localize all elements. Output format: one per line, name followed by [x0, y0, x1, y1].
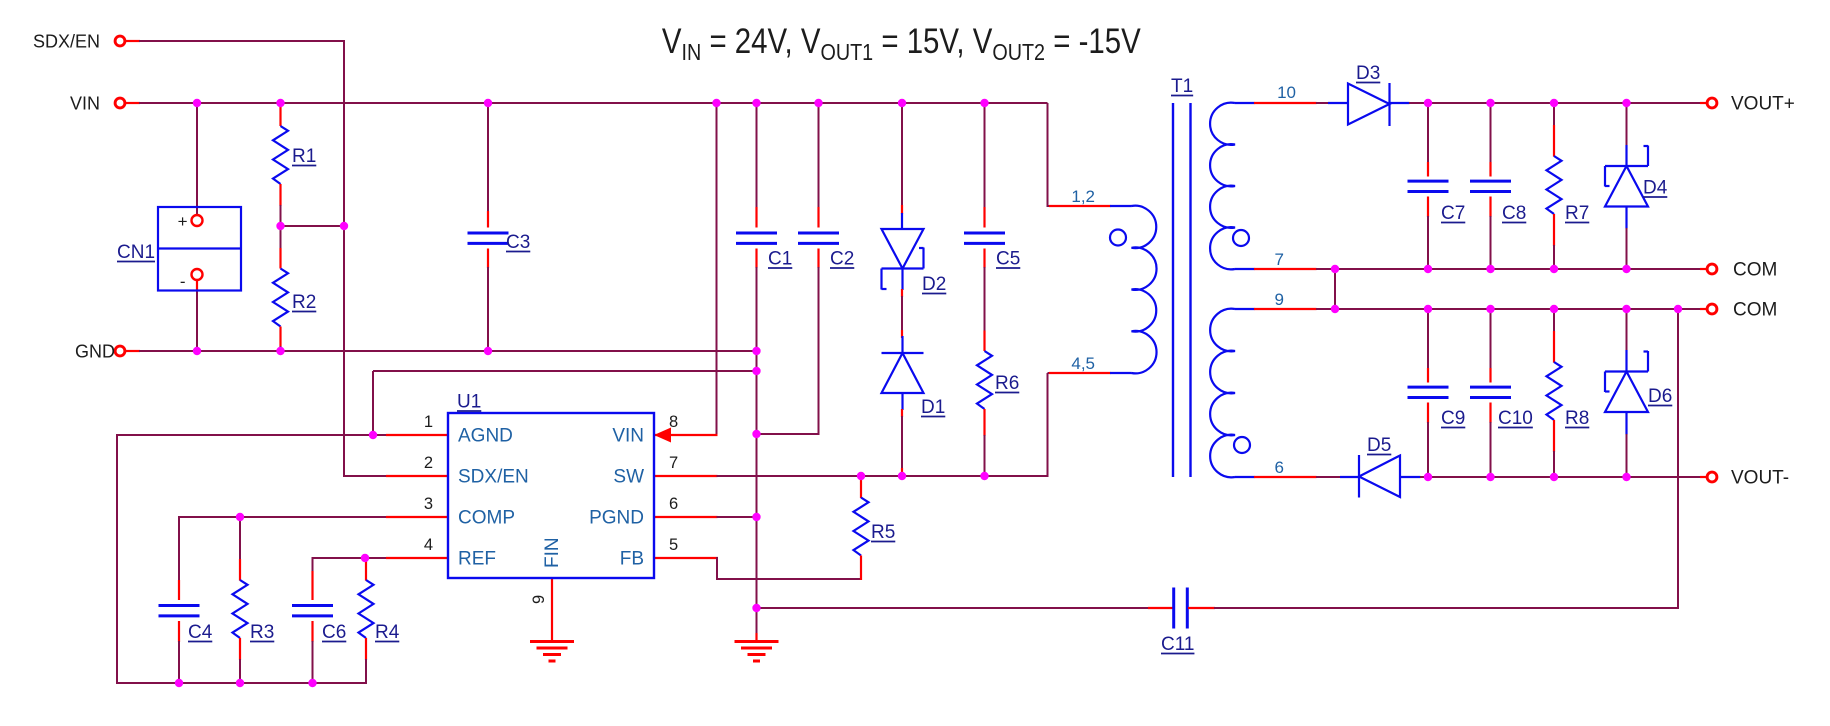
svg-text:R2: R2 — [292, 292, 316, 313]
svg-text:2: 2 — [424, 454, 433, 472]
svg-text:SDX/EN: SDX/EN — [33, 32, 100, 52]
svg-text:C5: C5 — [996, 249, 1020, 270]
svg-text:C11: C11 — [1161, 634, 1194, 655]
svg-text:C1: C1 — [768, 249, 792, 270]
svg-text:C7: C7 — [1441, 203, 1465, 224]
svg-text:1: 1 — [424, 413, 433, 431]
svg-text:+: + — [178, 212, 188, 231]
svg-text:6: 6 — [1275, 458, 1284, 477]
svg-text:8: 8 — [669, 413, 678, 431]
svg-text:C10: C10 — [1498, 408, 1533, 429]
svg-text:CN1: CN1 — [117, 242, 155, 263]
svg-text:SW: SW — [613, 467, 644, 488]
svg-text:PGND: PGND — [589, 508, 644, 529]
svg-text:D3: D3 — [1356, 63, 1380, 84]
svg-text:R3: R3 — [250, 622, 274, 643]
svg-text:7: 7 — [1275, 250, 1284, 269]
svg-text:4: 4 — [424, 536, 433, 554]
svg-text:VOUT-: VOUT- — [1731, 468, 1789, 489]
svg-text:VIN: VIN — [70, 94, 100, 114]
svg-text:GND: GND — [75, 342, 115, 362]
svg-text:R6: R6 — [995, 373, 1019, 394]
svg-text:U1: U1 — [457, 392, 481, 413]
svg-text:FIN: FIN — [542, 537, 563, 568]
svg-text:7: 7 — [669, 454, 678, 472]
svg-text:R8: R8 — [1565, 408, 1589, 429]
svg-text:R4: R4 — [375, 622, 400, 643]
svg-text:9: 9 — [530, 595, 548, 604]
svg-text:C6: C6 — [322, 622, 346, 643]
svg-text:5: 5 — [669, 536, 678, 554]
svg-text:C2: C2 — [830, 249, 854, 270]
svg-text:C3: C3 — [506, 232, 530, 253]
svg-text:T1: T1 — [1171, 76, 1193, 97]
svg-text:VIN = 24V, VOUT1 = 15V, VOUT2: VIN = 24V, VOUT1 = 15V, VOUT2 = -15V — [662, 22, 1141, 66]
svg-text:6: 6 — [669, 495, 678, 513]
svg-text:COM: COM — [1733, 300, 1777, 321]
svg-text:10: 10 — [1277, 83, 1296, 102]
svg-text:C8: C8 — [1502, 203, 1526, 224]
svg-text:D1: D1 — [921, 397, 945, 418]
svg-text:C4: C4 — [188, 622, 213, 643]
svg-text:R1: R1 — [292, 146, 316, 167]
svg-text:SDX/EN: SDX/EN — [458, 467, 529, 488]
svg-text:D6: D6 — [1648, 386, 1672, 407]
svg-text:D5: D5 — [1367, 435, 1391, 456]
svg-text:1,2: 1,2 — [1071, 187, 1095, 206]
svg-text:-: - — [180, 272, 186, 291]
svg-text:C9: C9 — [1441, 408, 1465, 429]
svg-text:AGND: AGND — [458, 426, 513, 447]
svg-text:COMP: COMP — [458, 508, 515, 529]
svg-text:FB: FB — [620, 549, 644, 570]
svg-text:9: 9 — [1275, 290, 1284, 309]
svg-text:VOUT+: VOUT+ — [1731, 94, 1795, 115]
svg-text:D4: D4 — [1643, 178, 1668, 199]
svg-text:4,5: 4,5 — [1071, 354, 1095, 373]
svg-text:R7: R7 — [1565, 203, 1589, 224]
svg-text:D2: D2 — [922, 274, 946, 295]
svg-text:R5: R5 — [871, 522, 895, 543]
svg-text:COM: COM — [1733, 260, 1777, 281]
svg-text:REF: REF — [458, 549, 496, 570]
svg-text:VIN: VIN — [612, 426, 644, 447]
svg-text:3: 3 — [424, 495, 433, 513]
